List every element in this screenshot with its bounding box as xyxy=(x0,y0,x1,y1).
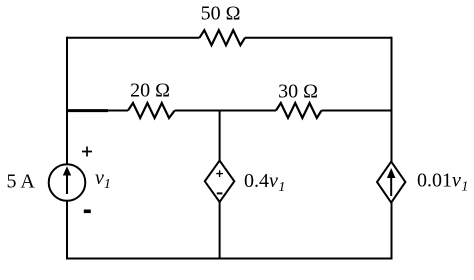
resistor 50ohm xyxy=(200,30,246,45)
wire top-left horizontal (top rail left of 50ohm) xyxy=(67,37,200,39)
wire top-right horizontal (top rail right of 50ohm) xyxy=(245,37,392,39)
svg-text:0.01v1: 0.01v1 xyxy=(417,170,468,195)
dependent voltage source 0.4v1 diamond xyxy=(205,161,235,202)
wire right vertical upper (top rail to 0.01v1 top) xyxy=(391,37,393,162)
wire bottom rail xyxy=(66,258,393,260)
dependent current source 0.01v1 arrow xyxy=(390,177,392,196)
svg-text:0.4v1: 0.4v1 xyxy=(244,170,285,195)
label plus inside 0.4v1 xyxy=(216,170,223,177)
current source 5A arrow xyxy=(66,174,68,194)
resistor 20ohm xyxy=(128,103,175,118)
label plus (v1 polarity) xyxy=(82,147,92,157)
svg-text:5 A: 5 A xyxy=(7,171,36,193)
wire middle rail center segment xyxy=(175,110,276,112)
resistor 30ohm xyxy=(276,103,322,118)
wire middle vertical lower (0.4v1 bottom to bottom rail) xyxy=(219,202,221,259)
wire middle rail left segment (thick) xyxy=(66,109,108,112)
svg-text:50 Ω: 50 Ω xyxy=(201,3,241,25)
svg-text:20 Ω: 20 Ω xyxy=(130,80,170,102)
wire middle rail right segment xyxy=(322,110,392,112)
dependent current source 0.01v1 diamond xyxy=(377,162,405,203)
wire middle rail left segment xyxy=(108,110,128,112)
wire left vertical middle (middle rail to 5A source top) xyxy=(66,111,68,165)
wire left vertical lower (5A source bottom to bottom rail) xyxy=(66,201,68,259)
wire left vertical upper (top rail to middle rail) xyxy=(66,37,68,111)
svg-text:30 Ω: 30 Ω xyxy=(278,81,318,103)
wire middle vertical upper (middle rail to 0.4v1 top) xyxy=(219,111,221,161)
wire right vertical lower (0.01v1 bottom to bottom rail) xyxy=(391,203,393,259)
current source 5A circle xyxy=(49,164,86,201)
label minus (v1 polarity) xyxy=(84,210,91,214)
label minus inside 0.4v1 xyxy=(217,192,223,194)
svg-text:v1: v1 xyxy=(95,167,111,192)
